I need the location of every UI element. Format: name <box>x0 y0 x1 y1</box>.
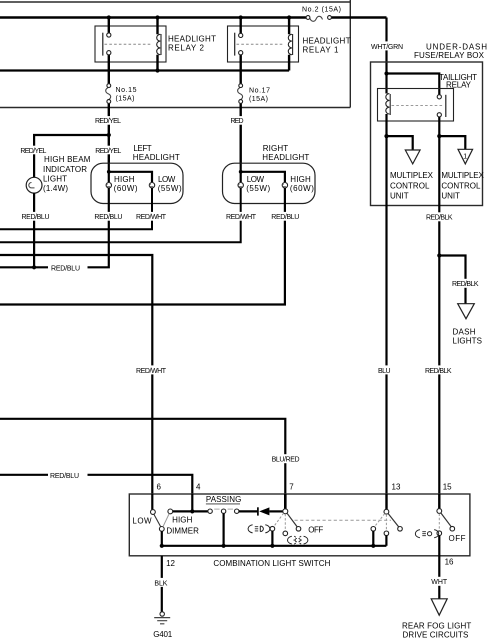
fog switch OFF contact <box>450 526 455 531</box>
wire: BLU/RED line to switch pin 7 <box>0 419 285 494</box>
pin 12 <box>166 559 175 568</box>
node: dash lights branch junction <box>437 253 441 257</box>
svg-text:CONTROL: CONTROL <box>441 182 481 191</box>
wire label RED/BLK (under box) <box>425 212 455 221</box>
node: junction at branch <box>107 133 111 137</box>
svg-text:LIGHT: LIGHT <box>43 174 67 183</box>
svg-text:No.2 (15A): No.2 (15A) <box>302 7 341 14</box>
svg-text:FUSE/RELAY BOX: FUSE/RELAY BOX <box>414 51 485 60</box>
label DIMMER <box>166 526 199 535</box>
node: pin 4 junction on high-beam line <box>190 509 194 513</box>
lighting switch pivot (pin 7) <box>283 509 288 514</box>
passing switch contact 1 <box>208 509 212 513</box>
fuse No.2 (15A) <box>302 7 341 22</box>
svg-text:No.17: No.17 <box>249 87 270 94</box>
svg-text:UNIT: UNIT <box>390 192 409 201</box>
wire: pin13 middle contact to common bus end <box>385 536 387 546</box>
pin 7 <box>289 482 294 491</box>
dimmer switch pivot <box>159 527 164 532</box>
pin13 switch blade right <box>388 514 399 528</box>
wire label RED/WHT (switch feed vertical) <box>134 365 168 374</box>
svg-text:RELAY 1: RELAY 1 <box>303 46 340 55</box>
arrow: to multiplex control unit (left) <box>405 150 420 164</box>
pin13 left contact <box>371 527 376 532</box>
svg-text:No.15: No.15 <box>116 87 137 94</box>
wire: fog contact down to pin 16 and out of box <box>438 536 440 599</box>
lamp: left LOW (55W) <box>149 175 182 193</box>
arrow: one-way passing link (bar + filled triangle) <box>258 507 283 515</box>
svg-text:RED/BLU: RED/BLU <box>94 214 122 221</box>
svg-text:LOW: LOW <box>132 516 152 525</box>
svg-text:RED/BLU: RED/BLU <box>22 214 50 221</box>
fog switch blade to OFF <box>441 513 451 527</box>
label LOW <box>132 516 152 525</box>
wire: coil feed into taillight relay <box>385 74 387 94</box>
node: bus junction at relay1 coil <box>287 15 291 19</box>
wire: page connector y=255 to RED/WHT switch feed <box>0 255 152 494</box>
wire label RED/YEL (indicator) <box>19 146 48 155</box>
under-hood fuse/relay box outline <box>0 0 350 108</box>
head position contact <box>270 526 275 531</box>
icon: position lights symbol at park contact <box>288 536 308 544</box>
wire: BLU vertical to switch pin 13 <box>385 136 387 494</box>
pin 6 <box>157 482 162 491</box>
taillight relay contacts <box>392 95 446 117</box>
pin13 switch dashed arm left <box>374 514 384 527</box>
wire label BLK <box>153 578 169 587</box>
svg-text:RED/YEL: RED/YEL <box>95 118 121 125</box>
label OFF (lighting switch) <box>308 525 323 534</box>
wire label BLU/RED <box>270 454 302 463</box>
taillight relay coil <box>386 94 390 115</box>
lamp: right HIGH (60W) <box>282 175 314 193</box>
arrow: to multiplex control unit 1 (right) <box>458 149 473 164</box>
svg-text:RED/BLU: RED/BLU <box>50 473 79 480</box>
label: MULTIPLEX CONTROL UNIT (left) <box>390 171 434 200</box>
svg-text:(15A): (15A) <box>249 96 268 103</box>
svg-text:RED/BLK: RED/BLK <box>452 281 479 288</box>
combination light switch box outline <box>129 494 470 568</box>
svg-text:(1.4W): (1.4W) <box>43 184 68 193</box>
park position contact <box>283 531 288 536</box>
svg-text:HIGH: HIGH <box>114 175 135 184</box>
svg-text:PASSING: PASSING <box>206 495 241 504</box>
lighting switch dashed arm to head position <box>274 513 284 527</box>
wire label RED (relay1 output) <box>230 116 245 125</box>
svg-text:DASH: DASH <box>453 327 476 336</box>
svg-text:COMBINATION LIGHT SWITCH: COMBINATION LIGHT SWITCH <box>213 559 330 568</box>
wire: pin 15 into fog switch pivot <box>438 494 440 509</box>
lighting switch blade to OFF <box>287 513 297 527</box>
svg-text:13: 13 <box>392 482 401 491</box>
pin13 middle contact <box>384 531 389 536</box>
wire: branch to taillight relay contact <box>387 74 440 95</box>
label: REAR FOG LIGHT DRIVE CIRCUITS <box>402 622 471 640</box>
svg-text:12: 12 <box>166 559 175 568</box>
wire: right headlight internal feed <box>241 164 285 183</box>
svg-text:HEADLIGHT: HEADLIGHT <box>262 153 309 162</box>
icon: rear fog light symbol <box>415 530 438 538</box>
svg-text:RED/BLU: RED/BLU <box>51 265 80 272</box>
lighting switch dashed arm to park position <box>284 514 286 531</box>
svg-text:REAR FOG LIGHT: REAR FOG LIGHT <box>402 622 471 631</box>
svg-text:6: 6 <box>157 482 162 491</box>
svg-text:CONTROL: CONTROL <box>390 182 430 191</box>
wire: pin 12 to ground <box>161 556 163 612</box>
OFF position contact <box>296 527 301 532</box>
node: BLU branch junction <box>384 134 388 138</box>
arrow: to dash lights <box>458 304 475 319</box>
label OFF (fog switch) <box>449 534 466 543</box>
node: pin13 contact on common bus <box>371 544 375 548</box>
svg-text:DIMMER: DIMMER <box>166 526 199 535</box>
wire: high-beam line from HIGH contact to passing contact <box>173 510 208 512</box>
svg-text:HEADLIGHT: HEADLIGHT <box>133 153 180 162</box>
passing switch contact 3 <box>235 509 239 513</box>
wire: passing moving contact down to common bus <box>223 513 225 545</box>
icon: headlight symbol at head contact <box>248 525 270 533</box>
wire label RED/WHT (left LOW) <box>135 212 168 221</box>
wire label RED/BLU on line y=267.3 <box>51 265 80 272</box>
wire: branch to left multiplex arrow <box>387 136 413 150</box>
svg-text:16: 16 <box>445 558 454 567</box>
wire: pin 13 into switch pivot <box>385 494 387 509</box>
wire label WHT/GRN <box>370 41 405 50</box>
node: bus junction at relay2 contact <box>107 15 111 19</box>
passing switch link dashes <box>214 508 233 510</box>
wire: taillight relay contact output down <box>438 117 440 136</box>
wire: RED/BLK vertical to switch pin 15 <box>438 136 440 494</box>
lamp: right LOW (55W) <box>238 175 271 193</box>
wire label BLU <box>376 365 392 374</box>
wire: relay coil supply bus y=70.5 <box>0 69 289 71</box>
svg-text:UNIT: UNIT <box>441 192 460 201</box>
pin 15 <box>443 482 452 491</box>
label HIGH <box>172 515 193 524</box>
pin 4 <box>196 482 201 491</box>
wire: left headlight HIGH drop to RED/BLU line y=267.3 <box>0 188 109 267</box>
svg-text:INDICATOR: INDICATOR <box>43 165 87 174</box>
lamp: HIGH BEAM INDICATOR LIGHT (1.4W) <box>26 155 91 267</box>
node: split inside left headlight <box>107 170 111 174</box>
wire: right headlight LOW drop to page connector y=242.3 <box>0 188 241 242</box>
fog position contact (pin 16) <box>437 531 442 536</box>
svg-text:15: 15 <box>443 482 452 491</box>
fog switch pivot (pin 15) <box>437 509 442 514</box>
right headlight outline <box>223 144 316 203</box>
node: bus junction at relay2 coil <box>155 15 159 19</box>
node: split inside right headlight <box>239 170 243 174</box>
svg-text:G401: G401 <box>153 630 173 639</box>
wire: pin13 left contact to common bus <box>372 531 374 546</box>
dimmer switch blade to LOW <box>154 514 161 527</box>
svg-text:HEADLIGHT: HEADLIGHT <box>168 35 216 44</box>
wire label RED/BLK (above pin 15) <box>424 365 454 374</box>
svg-text:WHT/GRN: WHT/GRN <box>371 44 403 51</box>
wire label RED/BLK (dash lights) <box>451 279 481 288</box>
svg-text:(60W): (60W) <box>114 184 138 193</box>
svg-text:RED/BLU: RED/BLU <box>271 214 299 221</box>
wire: pin 7 into lighting switch pivot <box>284 494 287 509</box>
pin 16 <box>445 558 454 567</box>
ground G401 <box>153 612 173 639</box>
svg-text:7: 7 <box>289 482 294 491</box>
wire label RED/WHT (right LOW) <box>225 212 258 221</box>
svg-text:HEADLIGHT: HEADLIGHT <box>303 37 351 46</box>
node: bus junction at relay1 contact <box>239 15 243 19</box>
wire: passing line to arrow <box>239 510 258 512</box>
wire label RED/YEL (left headlight) <box>94 146 123 155</box>
svg-text:BLK: BLK <box>154 580 167 587</box>
dimmer switch LOW contact <box>151 510 156 515</box>
label: DASH LIGHTS <box>453 327 483 345</box>
wire: WHT/GRN feed from fuse No.2 down into under-dash box <box>385 18 387 74</box>
passing switch contact 2 (moving) <box>221 509 225 513</box>
lamp: left HIGH (60W) <box>106 175 138 193</box>
svg-text:MULTIPLEX: MULTIPLEX <box>390 171 434 180</box>
svg-text:(60W): (60W) <box>290 184 314 193</box>
svg-text:HIGH: HIGH <box>172 515 193 524</box>
wire label RED/BLU (pin 4 line) <box>50 473 79 480</box>
svg-text:OFF: OFF <box>449 534 466 543</box>
wire: main power bus y=17.5 <box>0 16 387 18</box>
svg-text:RED/WHT: RED/WHT <box>136 368 167 375</box>
node: passing contact on common bus <box>222 544 226 548</box>
pin13 switch pivot <box>384 509 389 514</box>
svg-text:RED/WHT: RED/WHT <box>226 214 257 221</box>
wire: branch to right multiplex arrow <box>439 136 465 149</box>
svg-text:RED/YEL: RED/YEL <box>95 148 121 155</box>
svg-text:RED/WHT: RED/WHT <box>136 214 167 221</box>
wire: taillight relay coil output down <box>385 114 387 136</box>
svg-text:RED/BLK: RED/BLK <box>425 368 452 375</box>
wire: pin 4 into high-beam line <box>191 494 193 511</box>
svg-text:OFF: OFF <box>308 525 323 534</box>
svg-text:BLU/RED: BLU/RED <box>272 457 300 464</box>
relay HEADLIGHT RELAY 1 <box>228 18 351 84</box>
relay HEADLIGHT RELAY 2 <box>95 18 216 84</box>
dimmer switch dashed to HIGH <box>163 514 169 527</box>
under-dash fuse/relay box outline <box>371 43 488 206</box>
wire: left headlight internal feed <box>109 164 152 183</box>
node: coil bus junction relay2 <box>155 68 159 72</box>
svg-text:LOW: LOW <box>247 175 265 184</box>
relay TAILLIGHT RELAY <box>378 73 478 121</box>
svg-text:WHT: WHT <box>431 579 448 586</box>
mechanical link dashed to pin13 switch <box>295 519 392 521</box>
wire: left headlight LOW drop to page connector y=229.3 <box>0 188 152 229</box>
fuse No.17 (15A) <box>238 84 270 164</box>
wire label RED/BLU (right HIGH) <box>270 212 301 221</box>
svg-text:DRIVE CIRCUITS: DRIVE CIRCUITS <box>403 630 469 639</box>
svg-text:MULTIPLEX: MULTIPLEX <box>441 171 484 180</box>
svg-text:1: 1 <box>463 154 467 161</box>
svg-text:LOW: LOW <box>158 175 176 184</box>
label PASSING <box>206 495 241 504</box>
node: WHT/GRN junction inside box <box>384 71 388 75</box>
wire: branch to dash lights <box>439 256 465 304</box>
svg-text:(55W): (55W) <box>158 184 182 193</box>
wire: pin 6 into LOW contact <box>151 494 153 510</box>
svg-text:4: 4 <box>196 482 201 491</box>
left headlight outline <box>91 144 183 203</box>
svg-text:RED/YEL: RED/YEL <box>20 148 46 155</box>
svg-text:RED: RED <box>231 118 244 125</box>
wire label WHT <box>430 577 450 586</box>
svg-text:RELAY: RELAY <box>446 80 472 89</box>
node: indicator joins RED/BLU line <box>32 265 36 269</box>
wire label RED/YEL (relay2 output) <box>94 116 123 125</box>
wire: head contact down to common bus <box>271 531 273 546</box>
node: RED/BLK branch junction <box>437 134 441 138</box>
node: dimmer pivot on common bus <box>160 544 164 548</box>
node: head contact on common bus <box>270 544 274 548</box>
wire label RED/BLU (left HIGH) <box>93 212 124 221</box>
wire: RED/BLU line to switch pin 4 <box>0 475 192 494</box>
svg-text:BLU: BLU <box>378 368 391 375</box>
svg-text:HIGH BEAM: HIGH BEAM <box>44 155 91 164</box>
fog switch dashed arm down <box>438 514 440 531</box>
svg-text:(55W): (55W) <box>246 184 270 193</box>
fuse No.15 (15A) <box>106 84 137 164</box>
arrow: to rear fog light drive circuits <box>431 599 447 615</box>
wire: right headlight HIGH drop to page connector y=304.5 <box>0 188 285 305</box>
wire: branch to high beam indicator <box>34 135 109 178</box>
label: MULTIPLEX CONTROL UNIT (right) <box>441 171 484 200</box>
wire label RED/BLU (indicator drop) <box>20 212 51 221</box>
svg-text:RELAY 2: RELAY 2 <box>168 44 205 53</box>
pin13 right contact <box>398 527 403 532</box>
pin 13 <box>392 482 401 491</box>
svg-text:HIGH: HIGH <box>290 175 311 184</box>
svg-text:(15A): (15A) <box>116 96 135 103</box>
pin13 switch dashed arm middle <box>385 514 387 531</box>
dimmer switch HIGH contact <box>168 509 173 514</box>
svg-text:RED/BLK: RED/BLK <box>426 215 453 222</box>
svg-text:LIGHTS: LIGHTS <box>453 336 483 345</box>
wire: common bus inside switch <box>162 531 387 546</box>
